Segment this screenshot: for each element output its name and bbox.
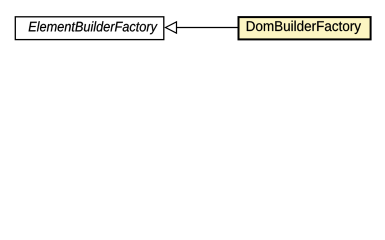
arrowhead: hollow triangle pointing at ElementBuilderFactory [166, 22, 177, 33]
class box DomBuilderFactory (highlighted) [239, 17, 371, 39]
interface box ElementBuilderFactory [15, 17, 164, 40]
background [0, 0, 385, 59]
wire: generalization connector from DomBuilderFactory to arrowhead [177, 27, 239, 29]
